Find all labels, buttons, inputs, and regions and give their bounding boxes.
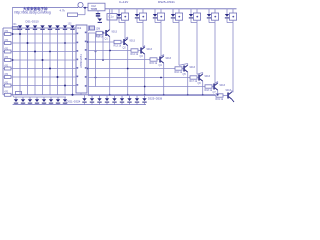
junction on column 6 xyxy=(57,76,59,78)
svg-text:R14 1k: R14 1k xyxy=(131,53,139,56)
wire bottom LED segment A rail xyxy=(14,96,67,98)
LED DS32 mark xyxy=(135,98,139,101)
diode VD3 mark xyxy=(153,14,157,17)
crystal X1 vertical wire xyxy=(88,26,90,32)
LED DS26 lead down xyxy=(91,103,93,105)
LED DS17 lead xyxy=(57,97,59,99)
unit U5 drop from bus xyxy=(196,9,198,13)
resistor R12 body xyxy=(150,58,157,61)
wire join of VD7 and U7 xyxy=(227,22,233,24)
unit U3 box xyxy=(157,13,164,20)
resistor R4 body xyxy=(5,50,12,53)
diode VD6 mark xyxy=(207,14,211,17)
resistor R15 body xyxy=(205,85,212,88)
resistor R2 body xyxy=(5,33,12,36)
wire column 5 drop to driver stage xyxy=(196,23,198,75)
transistor Q3 base lead xyxy=(138,50,140,52)
unit U5 box xyxy=(193,13,200,20)
unit U7 box xyxy=(229,13,236,20)
wire collector jog of Q4 to column 3 xyxy=(161,55,164,57)
transistor Q6 base lead xyxy=(197,77,198,79)
wire emitter of Q3 to common rail xyxy=(144,54,146,95)
wire emitter of Q5 to common rail xyxy=(187,72,189,95)
LED DS14 mark xyxy=(35,99,39,102)
transistor Q5 body xyxy=(183,66,185,72)
wire left common rail xyxy=(2,28,4,95)
junction on column 2 xyxy=(27,42,29,44)
unit U3 drop from bus xyxy=(160,9,162,13)
svg-text:4.7k: 4.7k xyxy=(60,9,66,13)
wire row 8 left stub xyxy=(3,94,5,96)
LED DS27 lead xyxy=(99,95,101,98)
wire row 3 left stub xyxy=(3,42,5,44)
junction on column 5 xyxy=(49,68,51,70)
wire top rail right of AC source xyxy=(83,7,88,9)
resistor R14 body xyxy=(190,76,197,79)
transistor Q4 body xyxy=(159,57,161,63)
svg-text:9013: 9013 xyxy=(220,84,226,87)
svg-text:9013: 9013 xyxy=(130,40,136,43)
wire collector jog of Q2 to column 1 xyxy=(125,37,128,39)
LED DS16 lead xyxy=(50,97,52,99)
svg-text:DS11~DS24: DS11~DS24 xyxy=(67,101,81,104)
LED DS26 lead xyxy=(91,95,93,98)
wire C2 to bus xyxy=(111,9,113,14)
LED DS33 lead xyxy=(144,95,146,98)
wire IC bottom stub to row 8 xyxy=(80,93,82,95)
wire emitter of Q1 to common rail xyxy=(109,37,111,95)
diode VD5 mark xyxy=(189,14,193,17)
transistor Q6 body xyxy=(198,75,200,81)
diode VD2 lead from bus xyxy=(136,9,138,14)
junction on column 8 xyxy=(72,94,74,96)
transistor Q2 base lead xyxy=(121,41,123,43)
unit U4 box xyxy=(175,13,182,20)
wire matrix column 2 xyxy=(27,30,29,95)
wire column 1 drop to driver stage xyxy=(124,23,126,39)
wire base row 2 to resistor xyxy=(88,41,114,43)
LED DS25 lead down xyxy=(84,103,86,105)
LED DS2 mark xyxy=(25,25,29,28)
regulator IC2 7805 box xyxy=(88,3,105,11)
resistor R5 body xyxy=(5,59,12,62)
crystal X1 box xyxy=(90,26,95,30)
diode VD4 lead from bus xyxy=(172,9,174,14)
svg-text:8.2k: 8.2k xyxy=(96,35,101,38)
wire collector of Q5 xyxy=(187,64,189,66)
LED DS15 lead down xyxy=(43,103,45,106)
resistor R0 body xyxy=(68,13,78,16)
LED DS15 mark xyxy=(42,99,46,102)
wire row 7 left stub xyxy=(3,76,5,78)
diode VD1 lead from bus xyxy=(118,9,120,14)
wire base row 8 to resistor xyxy=(88,95,216,97)
wire collector of Q6 xyxy=(202,73,204,75)
unit U1 box xyxy=(121,13,128,20)
wire join of VD6 and U6 xyxy=(209,22,215,24)
svg-text:9013: 9013 xyxy=(166,57,172,60)
transistor Q4 base lead xyxy=(157,59,159,61)
LED DS13 mark xyxy=(28,99,32,102)
resistor R9 body on row 8 xyxy=(5,93,12,96)
wire collector of Q8 xyxy=(231,91,233,93)
LED DS29 lead down xyxy=(114,103,116,105)
wire column 3 drop to driver stage xyxy=(160,23,162,57)
LED DS1 mark xyxy=(18,25,22,28)
svg-text:http://bbs.dzdiy.com/blog: http://bbs.dzdiy.com/blog xyxy=(15,11,51,15)
LED DS11 mark xyxy=(14,99,18,102)
wire base row 4 to resistor xyxy=(88,59,150,61)
LED DS17 lead down xyxy=(57,103,59,106)
wire collector of Q7 xyxy=(217,82,219,84)
unit U6 drop from bus xyxy=(214,9,216,13)
AC source B1 circle xyxy=(78,2,83,7)
wire column 7 drop to driver stage xyxy=(232,23,234,93)
wire collector of Q3 xyxy=(144,46,146,48)
svg-text:102: 102 xyxy=(68,23,73,26)
wire row 8 left stub xyxy=(3,85,5,87)
svg-text:9013: 9013 xyxy=(190,66,196,69)
junction on column 3 xyxy=(34,51,36,53)
wire row 6 to IC xyxy=(11,68,76,70)
wire join of VD3 and U3 xyxy=(155,22,161,24)
LED DS12 lead down xyxy=(22,103,24,106)
diode D0 mark xyxy=(98,19,102,22)
capacitor C1 below regulator xyxy=(97,11,99,13)
wire collector of Q1 xyxy=(109,9,111,30)
LED DS13 lead xyxy=(29,97,31,99)
transistor Q8 base lead xyxy=(223,95,227,97)
transistor Q7 body xyxy=(213,84,215,90)
diode VD2 lead to join xyxy=(136,19,138,23)
LED DS27 lead down xyxy=(99,103,101,105)
resistor R9 body xyxy=(96,31,103,34)
unit U2 box xyxy=(139,13,146,20)
LED DS11 lead down xyxy=(15,103,17,106)
LED DS28 lead down xyxy=(106,103,108,105)
LED DS13 lead down xyxy=(29,103,31,106)
unit U4 drop from bus xyxy=(178,9,180,13)
LED DS5 mark xyxy=(48,25,52,28)
junction on column 1 xyxy=(19,33,21,35)
svg-text:C+12V: C+12V xyxy=(119,0,128,4)
wire lead into source xyxy=(78,6,79,9)
resistor R10 body on row 8 xyxy=(16,92,22,95)
diode VD1 mark xyxy=(117,14,121,17)
unit U1 drop from bus xyxy=(124,9,126,13)
svg-text:9013: 9013 xyxy=(205,75,211,78)
IC U1 left pin number marks xyxy=(77,33,79,35)
wire row 7 to IC xyxy=(11,76,76,78)
resistor R16 body xyxy=(216,94,223,97)
wire base row 3 to resistor xyxy=(88,50,131,52)
LED DS25 mark xyxy=(82,98,86,101)
svg-text:DS25~DS31: DS25~DS31 xyxy=(158,0,175,4)
LED DS18 lead xyxy=(64,97,66,99)
LED DS31 lead down xyxy=(129,103,131,105)
unit U6 box xyxy=(211,13,218,20)
wire row 2 left stub xyxy=(3,33,5,35)
LED DS6 mark xyxy=(55,25,59,28)
unit U7 drop from bus xyxy=(232,9,234,13)
wire join of VD4 and U4 xyxy=(173,22,179,24)
LED DS16 mark xyxy=(49,99,53,102)
wire column 2 drop to driver stage xyxy=(142,23,144,48)
LED DS14 lead xyxy=(36,97,38,99)
wire row 5 left stub xyxy=(3,59,5,61)
junction grid dots xyxy=(12,33,14,35)
diode VD5 lead from bus xyxy=(190,9,192,14)
transistor Q1 body xyxy=(105,30,107,36)
svg-text:AT89C2051: AT89C2051 xyxy=(79,54,83,68)
wire emitter of Q4 to common rail xyxy=(163,63,165,95)
wire vertical x=103 xyxy=(102,33,104,60)
wire base row 5 to resistor xyxy=(88,68,175,70)
wire column 6 drop to driver stage xyxy=(214,23,216,84)
wire row 4 left stub xyxy=(3,51,5,53)
LED DS30 lead down xyxy=(121,103,123,105)
svg-text:R15 1k: R15 1k xyxy=(150,62,158,65)
svg-text:12M: 12M xyxy=(96,28,101,31)
diode VD7 lead from bus xyxy=(226,9,228,14)
LED DS27 mark xyxy=(97,98,101,101)
diode VD4 mark xyxy=(171,14,175,17)
LED DS28 lead xyxy=(106,95,108,98)
LED DS18 lead down xyxy=(64,103,66,106)
diode VD3 lead to join xyxy=(154,19,156,23)
wire collector jog of Q6 to column 5 xyxy=(197,73,203,75)
LED DS7 mark xyxy=(63,25,67,28)
wire collector jog of Q8 to column 7 xyxy=(232,91,233,93)
LED DS11 lead xyxy=(15,97,17,99)
transistor Q8 body xyxy=(227,93,229,99)
diode VD1 lead to join xyxy=(118,19,120,23)
transistor Q1 base lead xyxy=(103,32,105,34)
unit U2 drop from bus xyxy=(142,9,144,13)
wire collector of Q2 xyxy=(127,37,129,39)
wire column joins segment A rail xyxy=(12,95,15,97)
resistor R10 body xyxy=(114,40,121,43)
wire LED row 1 rail xyxy=(3,27,76,29)
wire row 2 to IC xyxy=(11,33,76,35)
svg-text:IC1: IC1 xyxy=(77,26,82,30)
svg-text:R19 1k: R19 1k xyxy=(216,98,224,101)
svg-text:9013: 9013 xyxy=(226,89,232,92)
LED DS12 mark xyxy=(21,99,25,102)
LED DS31 mark xyxy=(127,98,131,101)
svg-text:R13 1k: R13 1k xyxy=(114,45,122,48)
resistor R6 body xyxy=(5,67,12,70)
LED DS33 mark xyxy=(142,98,146,101)
wire vertical x=88.5 xyxy=(88,33,90,95)
svg-text:DS25~DS38: DS25~DS38 xyxy=(148,98,163,101)
LED DS26 mark xyxy=(90,98,94,101)
wire base row 1 to resistor xyxy=(88,32,96,34)
IC U1 AT89C2051 box xyxy=(76,25,87,93)
wire collector jog of Q7 to column 6 xyxy=(215,82,218,84)
svg-text:9013: 9013 xyxy=(112,31,118,34)
wire +12V bus from regulator to right edge xyxy=(105,8,237,10)
LED DS16 lead down xyxy=(50,103,52,106)
LED DS30 lead xyxy=(121,95,123,98)
wire emitter of Q2 to common rail xyxy=(127,46,129,95)
svg-text:9013: 9013 xyxy=(147,48,153,51)
LED DS17 mark xyxy=(56,99,60,102)
wire column 4 drop to driver stage xyxy=(178,23,180,66)
wire collector jog of Q3 to column 2 xyxy=(143,46,145,48)
diode VD5 lead to join xyxy=(190,19,192,23)
LED DS32 lead xyxy=(136,95,138,98)
LED DS15 lead xyxy=(43,97,45,99)
junction on column 7 xyxy=(64,85,66,87)
wire base row 7 to resistor xyxy=(88,86,205,88)
resistor R7 body xyxy=(5,76,12,79)
LED DS18 mark xyxy=(63,99,67,102)
wire emitter of Q6 to common rail xyxy=(202,81,204,95)
junction at regulator input xyxy=(84,7,86,9)
resistor R1 body xyxy=(12,26,18,29)
LED DS8 mark xyxy=(70,25,74,28)
transistor Q3 body xyxy=(140,48,142,54)
wire row 5 to IC xyxy=(11,59,76,61)
diode VD6 lead to join xyxy=(208,19,210,23)
diode VD6 lead from bus xyxy=(208,9,210,14)
wire emitter of Q8 to common rail xyxy=(232,99,234,102)
wire join of VD2 and U2 xyxy=(137,22,143,24)
LED DS29 lead xyxy=(114,95,116,98)
wire row 3 to IC xyxy=(11,42,76,44)
capacitor C2 box xyxy=(107,14,117,20)
diode VD7 lead to join xyxy=(226,19,228,23)
diode VD2 mark xyxy=(135,14,139,17)
transistor Q7 base lead xyxy=(212,86,213,88)
LED DS3 mark xyxy=(33,25,37,28)
resistor R8 body xyxy=(5,84,12,87)
wire matrix column 6 xyxy=(57,30,59,95)
svg-text:7805: 7805 xyxy=(91,7,98,11)
transistor Q2 body xyxy=(123,39,125,45)
LED DS4 mark xyxy=(40,25,44,28)
wire join of VD5 and U5 xyxy=(191,22,197,24)
LED DS12 lead xyxy=(22,97,24,99)
wire top rail left segment xyxy=(12,7,78,9)
diode VD7 mark xyxy=(225,14,229,17)
wire matrix column 4 xyxy=(42,30,44,95)
LED DS30 mark xyxy=(120,98,124,101)
svg-text:DS1~DS10: DS1~DS10 xyxy=(26,20,40,24)
resistor R3 body xyxy=(5,42,12,45)
diode VD4 lead to join xyxy=(172,19,174,23)
LED DS32 lead down xyxy=(136,103,138,105)
IC U1 right pin number marks xyxy=(85,32,87,34)
wire matrix column 3 xyxy=(34,30,36,95)
wire base row 6 to resistor xyxy=(88,77,190,79)
wire matrix column 8 xyxy=(72,30,74,95)
wire join of VD1 and U1 xyxy=(119,22,125,24)
diode VD3 lead from bus xyxy=(154,9,156,14)
wire collector jog of Q5 to column 4 xyxy=(179,64,188,66)
LED DS29 mark xyxy=(112,98,116,101)
wire row 6 left stub xyxy=(3,68,5,70)
resistor R11 body xyxy=(131,49,138,52)
LED DS31 lead xyxy=(129,95,131,98)
LED DS28 mark xyxy=(105,98,109,101)
wire emitter of Q7 to common rail xyxy=(217,90,219,95)
junction on column 4 xyxy=(42,59,44,61)
wire matrix column 1 xyxy=(19,28,21,95)
wire vertical x=95.5 xyxy=(95,33,97,87)
wire first grid column xyxy=(12,8,14,95)
LED DS25 lead xyxy=(84,95,86,98)
LED DS14 lead down xyxy=(36,103,38,106)
wire row 8 to IC xyxy=(11,85,76,87)
LED DS33 lead down xyxy=(144,103,146,105)
wire collector of Q4 xyxy=(163,55,165,57)
resistor R13 body xyxy=(175,67,182,70)
wire row 8 long common rail xyxy=(11,94,215,96)
wire matrix column 5 xyxy=(49,30,51,95)
wire R0 to regulator input xyxy=(78,14,86,16)
transistor Q5 base lead xyxy=(182,68,183,70)
wire bottom LED return rail xyxy=(13,104,146,106)
wire row 4 to IC xyxy=(11,51,76,53)
wire matrix column 7 xyxy=(64,30,66,95)
